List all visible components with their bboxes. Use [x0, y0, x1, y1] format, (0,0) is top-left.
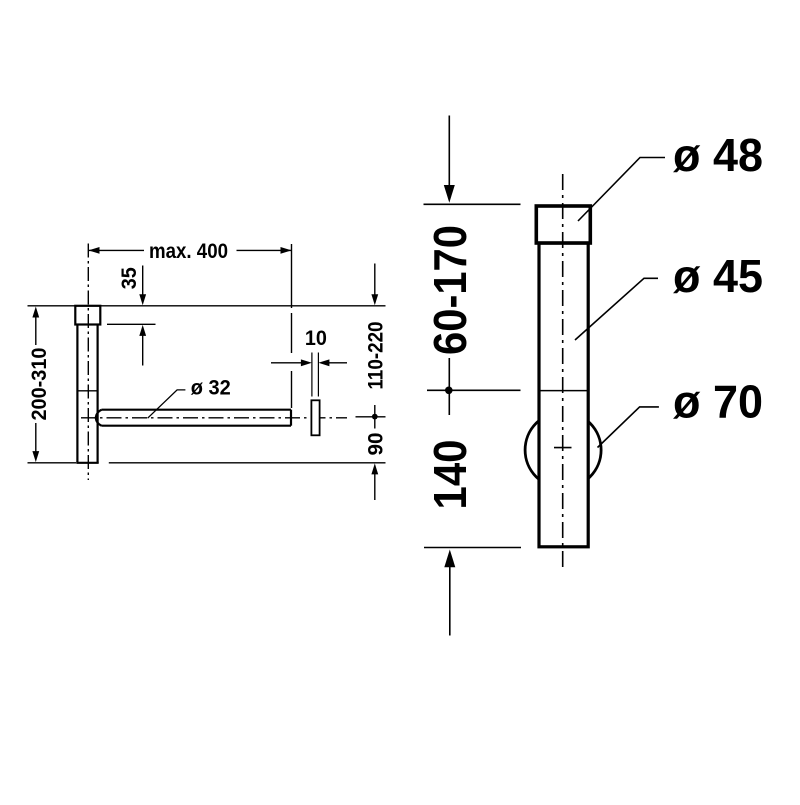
svg-text:10: 10: [305, 327, 327, 350]
arrow down 35: [139, 294, 146, 305]
dimension 10 extension lines: [312, 353, 319, 397]
chain line middle: [448, 358, 450, 415]
svg-text:110-220: 110-220: [365, 322, 388, 390]
arrow down 200-310: [32, 451, 39, 462]
reference line bottom: [424, 547, 521, 549]
chained dimension 110-220 / 90 line top: [374, 264, 376, 298]
svg-text:90: 90: [365, 433, 388, 456]
horizontal pipe left bullet end: [96, 410, 102, 426]
wire reference line C (bottom level): [28, 462, 77, 464]
svg-text:35: 35: [118, 267, 141, 289]
pipe joint line: [77, 390, 97, 392]
chain node dot: [372, 414, 378, 420]
extension line right of max.400: [291, 244, 293, 408]
arrow down 110-220: [371, 294, 378, 305]
chain node dot: [445, 387, 453, 395]
svg-text:ø 70: ø 70: [673, 376, 763, 428]
chain node vertical line: [374, 405, 376, 429]
horizontal pipe bottom edge: [102, 425, 292, 427]
center cross tick: [554, 447, 572, 449]
centerline vertical (pipe axis): [87, 244, 89, 481]
wire reference line B (cap bottom level): [107, 323, 156, 325]
wire reference line A (top level): [28, 305, 386, 307]
leader ø 48: [578, 158, 665, 222]
arrow up 90: [371, 463, 378, 474]
svg-text:60-170: 60-170: [424, 225, 476, 355]
reference line top: [424, 203, 521, 205]
pipe body ø45: [539, 243, 588, 547]
dimension 60-170 top line: [448, 116, 450, 187]
centerline vertical (front view): [562, 174, 564, 571]
arrow left max.400: [89, 247, 100, 254]
pipe left edge: [76, 325, 78, 463]
dimension max. 400 line: [89, 249, 292, 251]
svg-text:140: 140: [424, 440, 476, 510]
svg-text:200-310: 200-310: [28, 348, 51, 421]
pipe bottom edge: [76, 462, 98, 464]
dimension 140 bottom line: [449, 566, 451, 636]
centerline stub right of plate: [356, 416, 386, 418]
svg-text:ø 45: ø 45: [673, 250, 763, 302]
svg-text:ø 48: ø 48: [673, 129, 763, 181]
svg-text:ø 32: ø 32: [191, 376, 231, 399]
leader ø 32: [148, 390, 186, 418]
horizontal pipe top edge: [102, 409, 292, 411]
dimension 35 upper line: [142, 266, 144, 298]
svg-text:max. 400: max. 400: [149, 240, 228, 263]
wall plate: [311, 400, 319, 435]
pipe joint line: [539, 390, 588, 392]
pipe cap ø48: [536, 206, 590, 243]
dimension 10 line segments: [271, 362, 347, 364]
horizontal pipe right end: [290, 410, 292, 426]
arrow right-pointing 10: [301, 359, 312, 366]
dimension 35 lower line: [142, 333, 144, 366]
centerline horizontal (pipe axis): [81, 417, 347, 419]
arrow right max.400: [281, 247, 292, 254]
pipe right edge: [96, 325, 98, 463]
arrow up 35: [139, 325, 146, 336]
trap ball ø70 circle: [525, 412, 601, 488]
arrow up 200-310: [32, 307, 39, 318]
arrow down 60-170: [444, 185, 455, 203]
leader ø 70: [598, 407, 659, 448]
leader ø 45: [575, 278, 658, 340]
dimension 200-310 line: [35, 310, 37, 459]
pipe cap (side view): [75, 306, 100, 325]
arrow left-pointing 10: [318, 359, 329, 366]
arrow up 140: [444, 550, 455, 568]
chained dimension line bottom: [374, 471, 376, 500]
chain node horizontal line: [427, 389, 521, 391]
